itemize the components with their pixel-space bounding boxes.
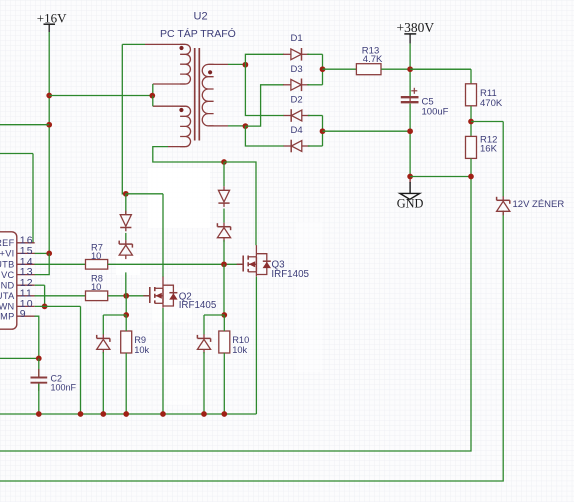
wire	[102, 315, 104, 335]
wire	[35, 253, 50, 274]
junction	[320, 128, 326, 134]
wire	[0, 357, 39, 359]
junction	[221, 312, 227, 318]
wire	[223, 315, 225, 414]
wire	[48, 32, 50, 253]
wire	[307, 53, 322, 55]
wire	[203, 315, 205, 335]
power +16V	[37, 10, 67, 32]
junction	[46, 93, 52, 99]
wire	[35, 285, 45, 306]
svg-text:16K: 16K	[480, 144, 498, 155]
svg-text:12V ZÉNER: 12V ZÉNER	[513, 199, 565, 210]
resistor R7	[86, 243, 108, 270]
wire	[223, 240, 225, 264]
junction	[468, 119, 474, 125]
wire	[35, 252, 50, 254]
junction	[46, 122, 52, 128]
resistor R10	[219, 331, 249, 355]
svg-text:MP: MP	[0, 312, 14, 322]
svg-text:+16V: +16V	[37, 10, 67, 25]
junction	[407, 66, 413, 72]
wire	[255, 277, 257, 415]
wire	[470, 106, 472, 136]
diode Z3 (zener)	[97, 334, 110, 353]
wire	[0, 154, 33, 243]
wire	[204, 314, 224, 316]
wire	[470, 69, 472, 83]
transistor Q2	[143, 277, 217, 311]
junction	[100, 411, 106, 417]
junction	[201, 411, 207, 417]
svg-text:9: 9	[20, 308, 27, 320]
wire	[102, 352, 104, 414]
wire	[308, 145, 323, 147]
junction	[36, 356, 42, 362]
wire	[471, 121, 503, 123]
svg-text:IRF1405: IRF1405	[179, 300, 217, 311]
wire	[126, 193, 163, 195]
svg-text:UTA: UTA	[0, 291, 15, 301]
wire	[223, 264, 225, 315]
wire	[245, 126, 284, 146]
power +380V	[397, 20, 435, 44]
svg-text:10k: 10k	[134, 345, 149, 355]
wire	[409, 44, 411, 96]
diode Z4 (zener)	[197, 334, 210, 353]
diode D1	[283, 33, 309, 61]
diode Z5 (12V zener)	[497, 196, 565, 215]
diode D5	[120, 211, 131, 232]
svg-text:D3: D3	[291, 64, 303, 75]
svg-text:100uF: 100uF	[422, 107, 449, 118]
wire	[152, 96, 154, 107]
junction	[320, 66, 326, 72]
svg-text:10: 10	[91, 282, 101, 292]
svg-text:ND: ND	[1, 281, 15, 291]
junction	[78, 411, 84, 417]
junction	[123, 191, 129, 197]
wire	[502, 122, 504, 197]
wire	[224, 162, 256, 245]
junction	[243, 123, 249, 129]
wire	[162, 194, 164, 277]
junction	[221, 411, 227, 417]
transformer U2	[145, 11, 236, 147]
svg-text:R10: R10	[232, 335, 249, 345]
wire	[203, 352, 205, 414]
diode D2	[284, 95, 310, 122]
wire	[0, 177, 471, 452]
svg-text:4.7K: 4.7K	[363, 54, 383, 65]
svg-text:470K: 470K	[480, 98, 503, 109]
wire	[470, 159, 472, 177]
wire	[49, 95, 152, 97]
junction	[243, 62, 249, 68]
wire	[307, 84, 322, 86]
wire	[35, 306, 81, 414]
svg-text:REF: REF	[0, 238, 15, 248]
svg-text:U2: U2	[194, 11, 208, 23]
pin 15	[0, 245, 35, 259]
wire	[322, 54, 324, 85]
pin 14	[0, 256, 35, 270]
wire	[108, 295, 150, 297]
pin 10	[0, 298, 35, 312]
diode D3	[283, 64, 309, 91]
wire	[103, 314, 126, 316]
resistor R13	[356, 46, 383, 75]
junction	[36, 411, 42, 417]
wire	[381, 68, 471, 70]
wire	[245, 85, 284, 126]
wire	[322, 116, 324, 147]
wire	[223, 162, 225, 186]
wire	[223, 209, 225, 223]
resistor R12	[466, 135, 498, 159]
diode Z1 (zener)	[119, 240, 132, 259]
wire	[108, 263, 243, 265]
pin 9	[0, 308, 35, 322]
svg-text:VC: VC	[1, 270, 14, 280]
junction	[123, 312, 129, 318]
wire	[0, 211, 503, 482]
wire	[38, 358, 40, 376]
wire	[323, 68, 357, 70]
wire	[152, 84, 154, 96]
wire	[35, 316, 39, 358]
junction	[123, 411, 129, 417]
wire	[245, 54, 284, 64]
diode D6	[218, 186, 229, 207]
capacitor C5	[401, 88, 449, 118]
svg-text:GND: GND	[397, 197, 424, 211]
svg-text:100nF: 100nF	[51, 383, 77, 393]
svg-text:10: 10	[91, 251, 101, 261]
junction	[407, 174, 413, 180]
resistor R11	[466, 84, 503, 109]
diode Z2 (zener)	[217, 223, 230, 242]
wire	[125, 296, 127, 315]
wire	[308, 115, 323, 117]
svg-text:UTB: UTB	[0, 260, 15, 270]
svg-text:10k: 10k	[232, 345, 247, 355]
svg-text:D2: D2	[291, 95, 303, 106]
wire	[35, 263, 86, 265]
wire	[122, 43, 145, 45]
wire	[125, 194, 127, 215]
pin 13	[1, 266, 35, 280]
junction	[160, 411, 166, 417]
junction	[221, 159, 227, 165]
svg-text:IRF1405: IRF1405	[271, 269, 309, 280]
transistor Q3	[237, 245, 310, 280]
resistor R8	[86, 274, 108, 301]
op-amp U1 (PWM controller, cut off)	[0, 232, 17, 329]
svg-text:D4: D4	[291, 125, 303, 136]
junction	[221, 261, 227, 267]
junction	[149, 93, 155, 99]
wire	[245, 64, 284, 115]
wire	[409, 104, 411, 177]
wire	[0, 124, 49, 126]
junction	[407, 128, 413, 134]
junction	[123, 293, 129, 299]
svg-text:+VI: +VI	[0, 249, 15, 259]
svg-text:D1: D1	[291, 33, 303, 44]
wire	[228, 63, 245, 65]
pin 11	[0, 287, 35, 301]
junction	[42, 304, 48, 310]
diode D4	[284, 125, 310, 153]
wire	[228, 125, 245, 127]
svg-text:WN: WN	[0, 302, 15, 312]
wire	[162, 308, 164, 414]
wire	[122, 44, 126, 193]
wire	[125, 233, 127, 240]
wire	[153, 147, 224, 162]
wire	[323, 130, 411, 132]
wire	[125, 272, 127, 295]
wire	[0, 413, 256, 415]
svg-text:+380V: +380V	[397, 20, 435, 35]
pin 16	[0, 234, 35, 248]
wire	[410, 176, 471, 178]
wire	[125, 315, 127, 414]
svg-text:PC TÁP TRAFÓ: PC TÁP TRAFÓ	[160, 27, 236, 40]
wire	[38, 384, 40, 414]
wire	[410, 68, 471, 70]
junction	[468, 174, 474, 180]
pin 12	[1, 277, 35, 291]
wire	[35, 295, 86, 297]
capacitor C2	[31, 369, 77, 393]
junction	[46, 251, 52, 257]
svg-text:R9: R9	[134, 335, 146, 345]
ground	[397, 179, 424, 211]
resistor R9	[121, 331, 150, 355]
